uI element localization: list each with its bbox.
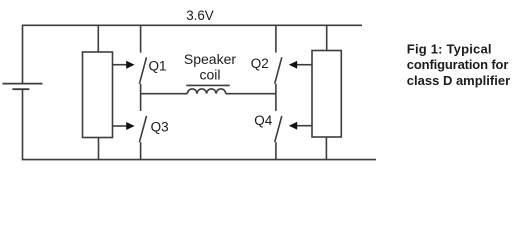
svg-text:Q4: Q4 [254,113,273,128]
svg-text:coil: coil [200,66,221,82]
svg-text:configuration for: configuration for [407,57,509,72]
svg-text:Q1: Q1 [149,58,167,73]
svg-text:Q2: Q2 [251,56,269,71]
svg-text:Q3: Q3 [151,120,169,135]
svg-text:class D amplifier: class D amplifier [407,73,510,88]
svg-text:Fig 1: Typical: Fig 1: Typical [407,42,492,57]
svg-text:3.6V: 3.6V [186,8,214,23]
svg-text:Speaker: Speaker [184,51,236,67]
